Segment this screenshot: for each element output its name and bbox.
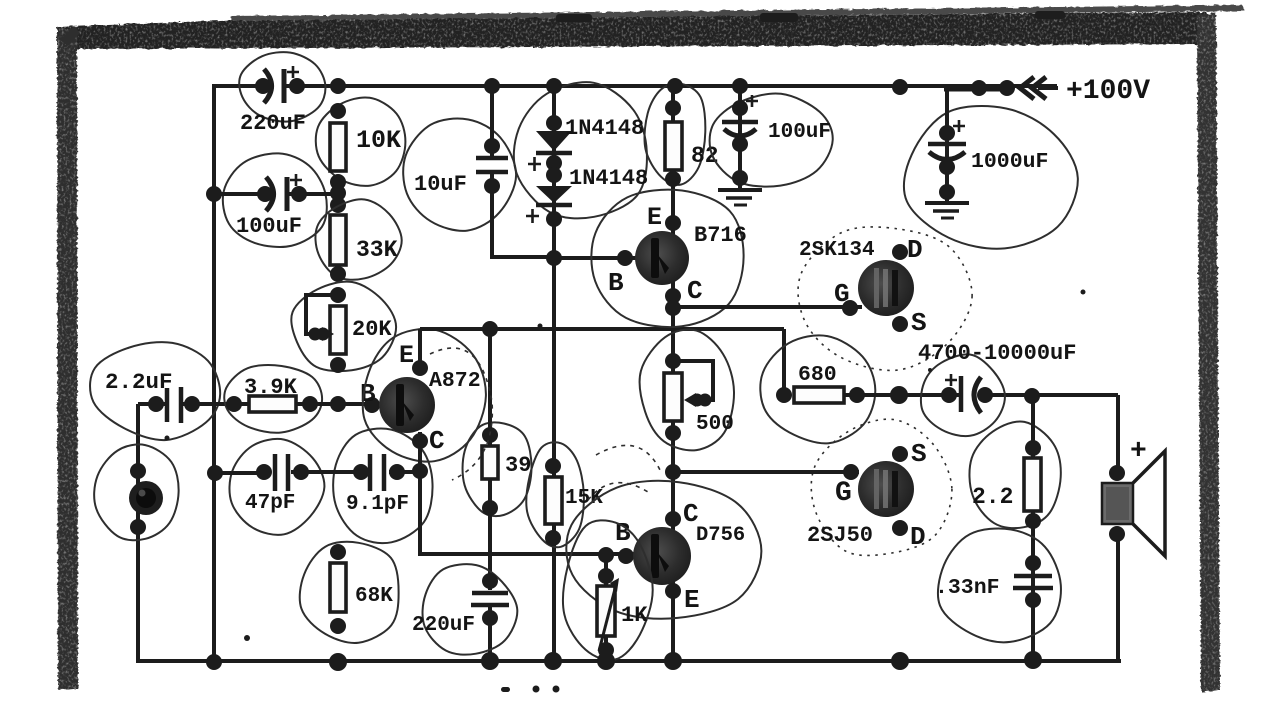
plus mark near D2 <box>526 209 539 223</box>
wire 2.2/.33nF branch <box>1031 396 1035 661</box>
20K wiper arrow <box>309 328 322 341</box>
node 1000uF bottom <box>939 184 955 200</box>
wire top rail thick segment <box>944 85 1014 92</box>
wire A872-collector to D756-base row <box>420 552 636 556</box>
hand-drawn loop around capacitor 100uF (right) <box>710 93 833 186</box>
node B716 base <box>617 250 633 266</box>
node .33nF top <box>1025 555 1041 571</box>
resistor 82 <box>665 122 682 170</box>
node rail/10uF junction <box>484 78 500 94</box>
node rail/82 junction <box>667 78 683 94</box>
node D756 collector <box>665 511 681 527</box>
svg-text:47pF: 47pF <box>245 492 295 515</box>
wire speaker vertical <box>1116 395 1120 473</box>
wire 1K branch <box>604 554 608 661</box>
hand-drawn loop around capacitor 100uF (left) <box>217 147 332 255</box>
wire left vertical rail x=214 <box>212 84 216 663</box>
node 2.2 top <box>1025 440 1041 456</box>
capacitor 220uF (bottom) <box>472 591 508 596</box>
node left-rail/47pF junction <box>207 465 223 481</box>
wire 10uF branch <box>490 86 494 156</box>
node 10K top <box>330 103 346 119</box>
wire input vertical x=138 <box>136 404 140 661</box>
node 2SK134 source <box>892 316 908 332</box>
hand-drawn loop around resistor 3.9K <box>224 365 322 433</box>
svg-text:D: D <box>907 235 923 265</box>
node 3.9K left <box>226 396 242 412</box>
node 33K bottom <box>330 266 346 282</box>
svg-text:2SJ50: 2SJ50 <box>807 523 873 548</box>
wire A872 collector down <box>418 432 422 556</box>
hand-drawn loop around capacitor 2.2uF <box>87 337 224 444</box>
node input-top junction <box>130 463 146 479</box>
plus mark near D1 <box>528 157 541 171</box>
node D2 cathode <box>546 211 562 227</box>
wire 47pF row <box>214 471 270 475</box>
hand-drawn loop around resistor 39 <box>463 422 532 516</box>
node bottom rail x=606 <box>597 652 615 670</box>
node 220uF-bottom rail junction <box>481 652 499 670</box>
node B716 emitter <box>665 215 681 231</box>
svg-text:2SK134: 2SK134 <box>799 239 875 262</box>
svg-text:4700-10000uF: 4700-10000uF <box>918 341 1076 366</box>
svg-text:10K: 10K <box>356 126 401 155</box>
svg-text:A872: A872 <box>429 369 481 393</box>
dashed hand-drawn circle around 2SK134 <box>798 227 972 371</box>
resistor 15K <box>545 477 562 524</box>
node 220uF-bottom top <box>482 573 498 589</box>
dashed hand-drawn circle around 2SJ50 <box>811 419 952 555</box>
resistor 1K <box>597 586 615 636</box>
node 2SJ50 drain <box>892 520 908 536</box>
node 3.9K right <box>302 396 318 412</box>
hand-drawn loop around input node <box>94 444 178 540</box>
node 82 top <box>665 100 681 116</box>
wire 2SJ50 gate row <box>673 470 859 474</box>
wire top +100V rail <box>214 84 268 88</box>
svg-text:E: E <box>647 203 662 232</box>
wire output row <box>844 393 960 397</box>
wire B716 collector to 2SK134 gate <box>673 305 862 309</box>
diode D2 1N4148 <box>536 186 572 203</box>
hand-drawn loop around capacitor 10uF <box>403 119 516 231</box>
transistor Q1 A872 (PNP) <box>379 377 435 433</box>
node 68K bottom <box>330 618 346 634</box>
svg-text:+: + <box>1130 436 1147 467</box>
scan dark patches on band top edge <box>556 11 1065 22</box>
speaker <box>1102 483 1133 524</box>
svg-text:E: E <box>399 341 414 370</box>
resistor 39 <box>482 446 498 479</box>
node 500 top <box>665 353 681 369</box>
svg-text:S: S <box>911 439 927 469</box>
wire B716 base row <box>554 256 636 260</box>
hand-drawn loop around output capacitor <box>921 354 1005 436</box>
node 39-branch junction <box>482 321 498 337</box>
node 100uF-right bottom <box>732 170 748 186</box>
svg-text:B716: B716 <box>694 223 747 248</box>
svg-text:82: 82 <box>691 143 719 169</box>
capacitor 9.1pF <box>353 464 369 480</box>
node B716 collector dots <box>665 288 681 304</box>
wire A872 emitter up <box>418 329 422 370</box>
capacitor 10uF <box>484 138 500 154</box>
hand-drawn loop around potentiometer 500 <box>640 330 734 451</box>
hand-drawn loop around resistor 68K <box>300 542 399 643</box>
scan page border left band <box>57 28 78 690</box>
node 2SJ50 source <box>892 446 908 462</box>
svg-text:220uF: 220uF <box>412 614 475 637</box>
capacitor 100uF (right) <box>732 100 748 116</box>
svg-text:68K: 68K <box>355 585 393 608</box>
wire input row <box>138 402 166 406</box>
scan page border top band <box>58 5 1245 49</box>
500 wiper arrow <box>691 394 704 407</box>
node rail/x900 junction <box>892 79 908 95</box>
resistor 68K <box>330 563 346 612</box>
svg-text:33K: 33K <box>356 237 398 263</box>
hand-drawn loop around capacitor 9.1pF <box>333 429 432 544</box>
hand-drawn loop around transistor A872 <box>363 329 486 462</box>
node 20K bottom <box>330 357 346 373</box>
node 2SK134 drain <box>892 244 908 260</box>
node D756 emitter <box>665 583 681 599</box>
svg-text:1N4148: 1N4148 <box>569 166 648 191</box>
capacitor 47pF <box>256 464 272 480</box>
svg-text:9.1pF: 9.1pF <box>346 493 409 516</box>
transistor Q2 B716 (PNP) <box>635 231 689 285</box>
svg-text:E: E <box>684 585 700 615</box>
node input-bottom junction <box>130 519 146 535</box>
hand-drawn loop around resistor 680 <box>760 335 875 443</box>
wire 39 branch <box>488 329 492 590</box>
hand-drawn loop around capacitor 47pF <box>229 439 324 535</box>
capacitor 1000uF <box>939 125 955 141</box>
svg-text:D756: D756 <box>696 524 745 547</box>
node 68K top <box>330 544 346 560</box>
capacitor 2.2uF <box>148 396 164 412</box>
scan page border right band <box>1197 13 1220 692</box>
node A872 collector <box>412 433 428 449</box>
hand-drawn loop around capacitor .33nF <box>938 528 1061 642</box>
stray dashed arc near 1K <box>588 483 648 500</box>
transistor Q4 2SJ50 (MOSFET) <box>858 461 914 517</box>
svg-text:B: B <box>608 268 624 298</box>
hand-drawn loop around capacitor 1000uF <box>904 106 1078 249</box>
hand-drawn loop around capacitor 220uF (top) <box>239 52 325 121</box>
svg-text:220uF: 220uF <box>240 111 306 136</box>
capacitor 4700-10000uF <box>941 387 957 403</box>
wire 82/B716 vertical x=673 <box>671 86 675 661</box>
node 39 top <box>482 427 498 443</box>
hand-drawn loop around resistor 82 <box>645 83 706 184</box>
stray curve near 15K <box>596 445 660 470</box>
node 20K top <box>330 287 346 303</box>
hand-drawn loop around transistor D756 <box>566 481 761 619</box>
wire 500 wiper loop <box>673 361 713 400</box>
wire feedback row y=329 <box>420 327 784 331</box>
svg-text:20K: 20K <box>352 317 392 342</box>
node bottom rail x=673 <box>664 652 682 670</box>
node output-right junction <box>1024 388 1040 404</box>
hand-drawn loop around resistor 15K <box>526 442 584 547</box>
node bottom rail x=1033 <box>1024 651 1042 669</box>
node 500 bottom <box>665 425 681 441</box>
node bottom rail x=553 <box>544 652 562 670</box>
node rail/100uF junction <box>206 186 222 202</box>
node 680 left <box>776 387 792 403</box>
resistor 680 <box>794 387 844 403</box>
node gate-row left junction <box>665 464 681 480</box>
svg-text:2.2: 2.2 <box>972 484 1013 510</box>
svg-text:100uF: 100uF <box>236 214 302 239</box>
node 680 right <box>849 387 865 403</box>
1K diagonal arrow <box>599 585 616 651</box>
svg-text:G: G <box>834 279 850 309</box>
node bottom rail x=214 <box>206 654 222 670</box>
svg-text:1N4148: 1N4148 <box>565 116 644 141</box>
node 2SK134 gate <box>842 300 858 316</box>
svg-text:500: 500 <box>696 413 734 436</box>
node D1-D2 junction <box>546 155 562 171</box>
node D1 anode <box>546 115 562 131</box>
svg-text:10uF: 10uF <box>414 172 467 197</box>
resistor 33K <box>330 215 346 265</box>
node 39 bottom <box>482 500 498 516</box>
node 33K top junction dots <box>330 185 346 201</box>
node A872 emitter <box>412 360 428 376</box>
node output junction <box>890 386 908 404</box>
node bottom rail x=900 <box>891 652 909 670</box>
diode D1 1N4148 <box>536 131 572 151</box>
svg-text:1K: 1K <box>621 603 648 628</box>
node 220uF-bottom bottom <box>482 610 498 626</box>
wire 100uF row <box>214 192 268 196</box>
+100V arrow chevrons <box>1020 77 1046 99</box>
svg-text:+100V: +100V <box>1066 76 1150 107</box>
resistor 20K (pot body) <box>330 306 346 354</box>
svg-text:C: C <box>687 276 703 306</box>
hand-drawn loop around resistor 2.2 <box>969 421 1060 528</box>
node A872 base <box>364 397 380 413</box>
capacitor 220uF (top, series in rail) <box>255 78 271 94</box>
input source node (filled circle) <box>129 481 163 515</box>
hand-drawn loop around resistor 1K <box>563 520 653 660</box>
node rail/100uF-right junction <box>732 78 748 94</box>
node 2SJ50 gate <box>843 464 859 480</box>
wire 1000uF branch <box>945 86 949 203</box>
node .33nF bottom <box>1025 592 1041 608</box>
wire bottom ground rail <box>136 659 1121 663</box>
resistor 10K <box>330 123 346 171</box>
svg-text:D: D <box>910 522 926 552</box>
node rail/10K junction <box>330 78 346 94</box>
node D756 base <box>618 548 634 564</box>
node 1K junction <box>598 547 614 563</box>
node speaker top terminal <box>1109 465 1125 481</box>
resistor 500 (pot body) <box>664 373 682 421</box>
node 82 bottom <box>665 171 681 187</box>
wire 100uF-right branch <box>738 86 742 190</box>
node 15K bottom <box>545 530 561 546</box>
node base-row x=338 junction <box>330 396 346 412</box>
svg-text:2.2uF: 2.2uF <box>105 369 173 395</box>
wire diode chain x=554 <box>552 86 556 661</box>
svg-text:100uF: 100uF <box>768 121 831 144</box>
node diode/base junction <box>546 250 562 266</box>
node rail dots near +100V <box>971 80 987 96</box>
node 2.2 bottom <box>1025 513 1041 529</box>
svg-text:3.9K: 3.9K <box>244 375 298 400</box>
ground symbol (1000uF) <box>925 201 969 205</box>
resistor 3.9K <box>249 396 296 412</box>
hand-drawn loop around capacitor 220uF (bottom) <box>423 564 518 654</box>
hand-drawn loop around resistor 10K <box>316 97 406 185</box>
svg-text:1000uF: 1000uF <box>971 150 1048 174</box>
node bottom rail x=338 (68K) <box>329 653 347 671</box>
stray ink specks below rail <box>165 290 1086 693</box>
svg-text:S: S <box>911 308 927 338</box>
capacitor .33nF <box>1014 574 1052 579</box>
svg-text:.33nF: .33nF <box>935 576 1000 600</box>
node A872 collector row junction <box>412 463 428 479</box>
node 1K bottom <box>598 642 614 658</box>
ground symbol (100uF right) <box>718 188 762 192</box>
hand-drawn loop around resistor 33K <box>315 199 401 279</box>
hand-drawn loop around transistor B716 <box>591 190 743 327</box>
transistor Q3 2SK134 (MOSFET) <box>858 260 914 316</box>
wire 680 riser <box>782 329 786 396</box>
transistor Q5 D756 (NPN) <box>633 527 691 585</box>
hand-drawn loop around potentiometer 20K <box>291 282 396 372</box>
node speaker bottom terminal <box>1109 526 1125 542</box>
svg-text:39: 39 <box>505 453 531 478</box>
node rail/diode junction <box>546 78 562 94</box>
svg-text:680: 680 <box>798 363 837 387</box>
capacitor 100uF (left) <box>257 186 273 202</box>
scan corner mark top-left <box>60 26 80 46</box>
resistor 2.2 <box>1024 458 1041 511</box>
wire 20K wiper loop <box>306 295 338 334</box>
svg-text:G: G <box>835 478 852 509</box>
node 15K top <box>545 458 561 474</box>
node 10K bottom <box>330 174 346 190</box>
wire base row to A872 <box>296 402 380 406</box>
node 1K top <box>598 568 614 584</box>
stray dashed arc near A872 <box>430 348 492 480</box>
svg-text:C: C <box>429 426 445 456</box>
hand-drawn loop around diodes 1N4148 <box>514 82 647 218</box>
